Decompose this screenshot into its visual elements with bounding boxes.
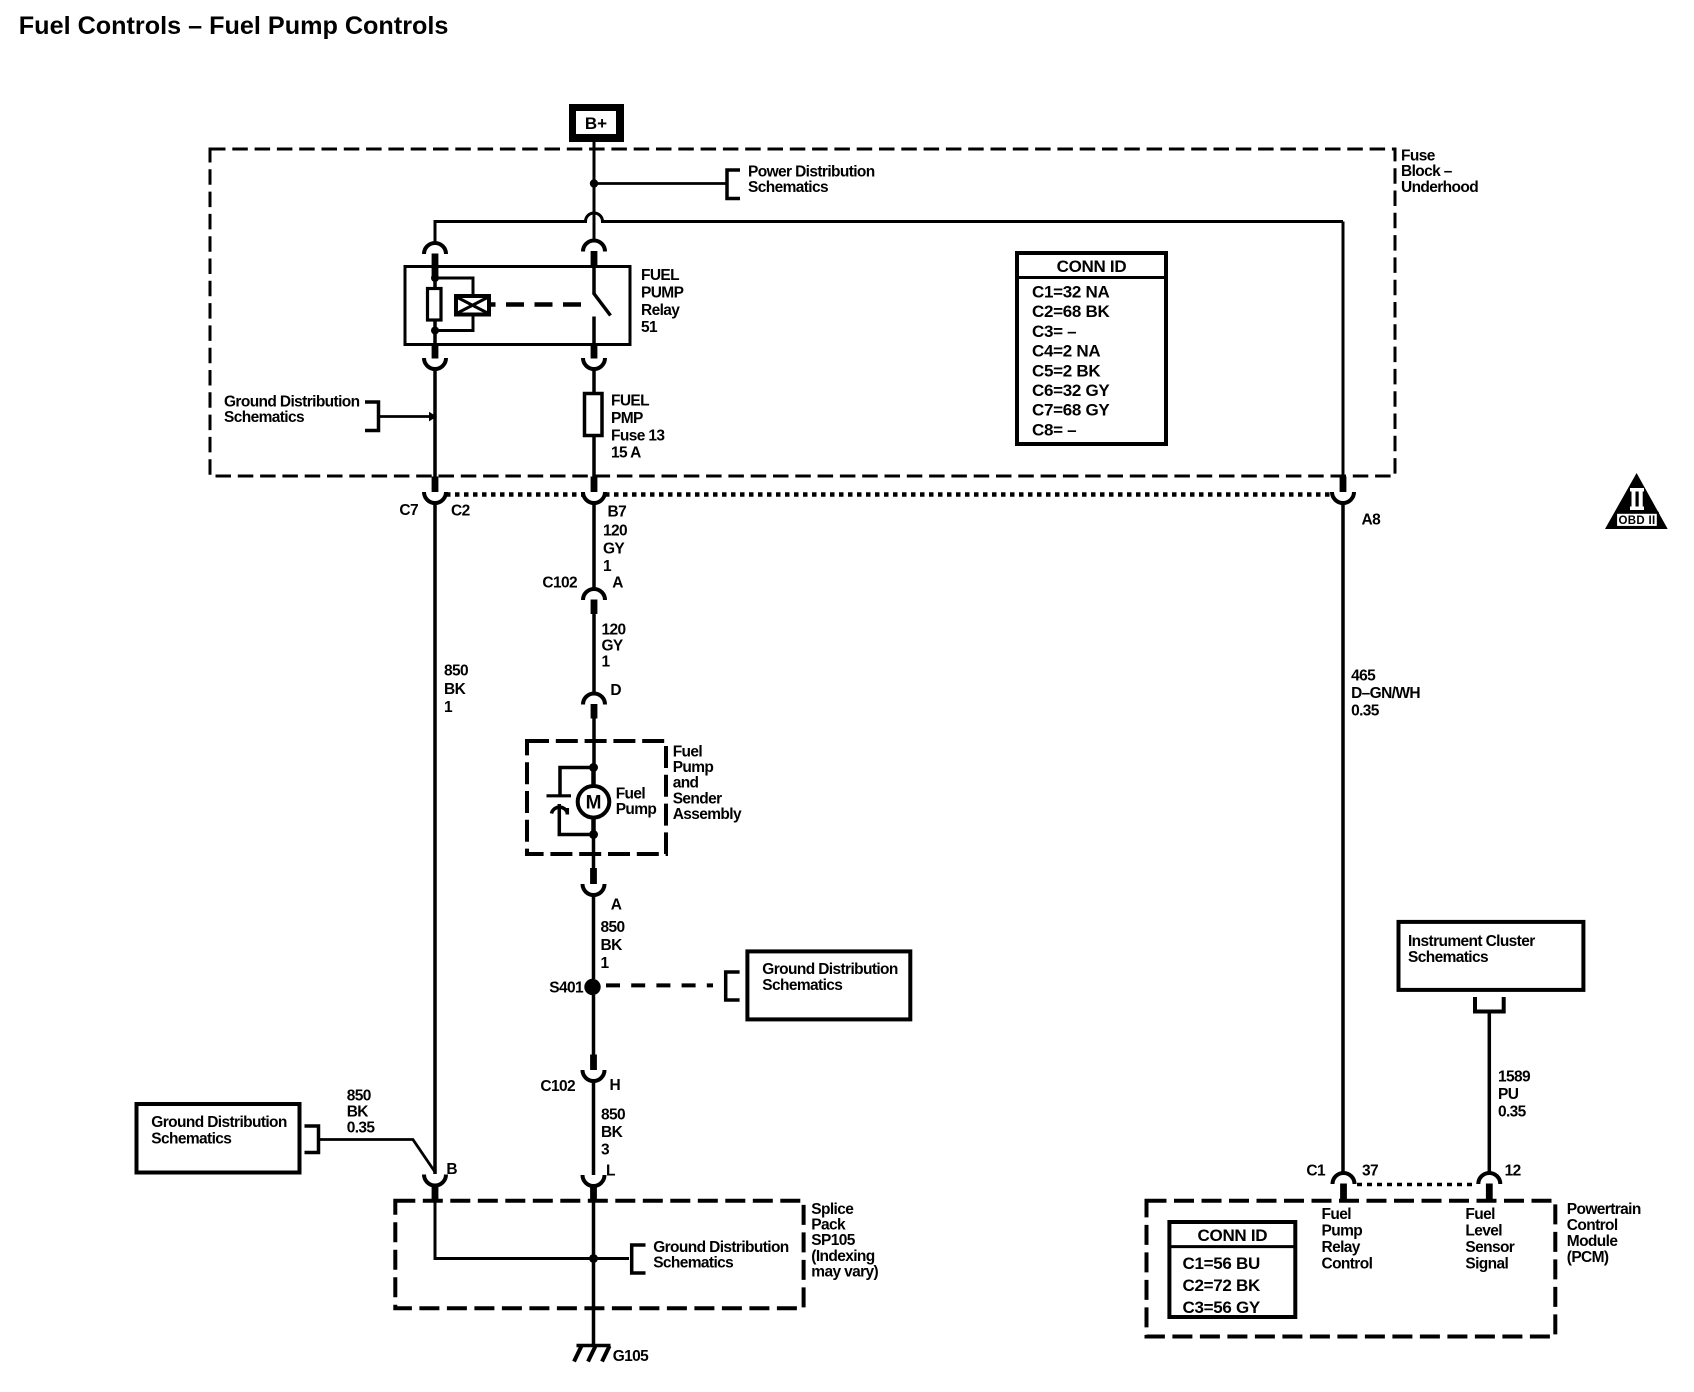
motor M fuel pump [578,786,610,818]
label Fuel Pump and Sender Assembly [673,743,742,823]
bracket under instrument cluster box [1473,997,1506,1012]
wire to power distribution bracket [594,182,727,185]
svg-text:A8: A8 [1362,512,1382,529]
title Fuel Controls - Fuel Pump Controls [19,12,449,40]
label Fuel Level Sensor Signal [1465,1206,1514,1273]
label box Ground Distribution Schematics lower left [137,1104,300,1173]
label Power Distribution Schematics [748,164,875,197]
node splice pack junction [589,1254,598,1263]
pin label B [446,1161,457,1178]
wire leader to connector B [319,1140,436,1173]
wire dashed S401 to ground distribution [606,983,713,987]
wire S401 to C102 H [592,995,596,1055]
wire relay coil to ground branch [433,370,437,478]
wire 120 GY 1 from B7 down [592,504,596,590]
node fuel pump bottom junction [589,830,598,839]
wire 850 BK 1 from C2 down [433,504,437,1175]
svg-text:C2: C2 [451,503,470,520]
pin label C7 [399,502,418,519]
powertrain control module dashed box [1147,1201,1556,1337]
svg-text:B: B [446,1161,457,1178]
pin label D [610,682,621,699]
pump element T bar [547,794,572,797]
node coil top [431,274,439,282]
connector L into splice pack [583,1175,605,1201]
pump element curved arrow [552,807,568,814]
label 1589 PU 0.35 [1498,1068,1531,1120]
label 120 GY 1 lower [602,622,626,671]
svg-text:Fuel Controls – Fuel Pump Cont: Fuel Controls – Fuel Pump Controls [19,12,449,40]
label box Instrument Cluster Schematics [1399,922,1584,990]
node junction at power distribution tap [590,179,598,187]
wire B+ to relay switch [593,142,596,240]
wire 1589 PU to PCM 12 [1488,1013,1492,1173]
label Powertrain Control Module PCM [1567,1201,1641,1266]
pin label B7 [608,504,627,521]
label 120 GY 1 upper [603,523,627,576]
bracket lower left ground distribution [305,1126,319,1153]
svg-text:C102: C102 [540,1078,575,1095]
svg-text:S401: S401 [549,979,584,996]
wire to relay winding [435,278,473,296]
wire junction to bracket [594,1257,630,1260]
connector B7 pin and arc [583,477,605,504]
pin label 37 [1362,1163,1378,1180]
wire D to fuel pump [592,719,596,769]
bracket splice pack ground distribution [632,1245,646,1273]
wire winding bottom to coil bottom [437,315,473,331]
OBD II marker triangle [1605,473,1668,529]
battery feed B+ [569,104,624,142]
label 850 BK 1 [444,663,468,717]
wire dotted PCM connector row [1357,1183,1476,1187]
wire dotted connector row [446,492,1332,497]
svg-text:B7: B7 [608,504,627,521]
svg-text:C7: C7 [399,502,418,519]
pin label H [610,1077,621,1094]
connector C102 cavity A [583,589,605,614]
wire right branch down to A8 [1342,222,1345,478]
wire 850 BK 1 to S401 [592,896,596,980]
CONN ID table fuse block [1017,253,1166,444]
wire horizontal bus with hop over B+ wire [435,213,1343,221]
svg-text:CONN ID: CONN ID [1057,257,1127,276]
wire pump to connector A [592,835,596,869]
svg-text:A: A [611,897,622,914]
connector C102 cavity H [583,1055,605,1082]
svg-text:B+: B+ [585,114,607,133]
label G105 [613,1348,649,1365]
bracket S401 ground distribution [726,972,740,1000]
connector cavity 12 of PCM [1478,1173,1500,1201]
pin label A8 [1362,512,1382,529]
svg-text:A: A [612,575,623,592]
fuse FUEL PMP Fuse 13 [585,394,603,436]
connector C1 cavity 37 of PCM [1333,1173,1355,1201]
label Fuse Block - Underhood [1401,148,1478,196]
connector pin out of relay coil [424,345,446,370]
svg-text:C1: C1 [1306,1163,1326,1180]
bracket power distribution [727,170,740,199]
wire relay switch to fuse [592,370,596,394]
pin label A of C102 [612,575,623,592]
CONN ID table PCM [1169,1222,1295,1317]
connector D of fuel pump assembly [583,694,605,719]
label FUEL PUMP Relay 51 [641,267,684,336]
wire dashed relay actuation line [489,302,582,307]
wire left branch down to relay coil connector [434,220,437,244]
connector B into splice pack [424,1175,446,1202]
wire 465 D-GN/WH to PCM C1 [1341,504,1345,1174]
node coil bottom [431,327,439,335]
wire pump bypass lower [559,804,593,835]
fuse block underhood dashed box [210,149,1395,476]
label C102 at H [540,1078,575,1095]
relay switch contact [594,267,611,345]
fuel pump and sender assembly dashed box [527,741,666,854]
wire pump bypass upper [560,768,594,796]
wire motor vertical through [591,768,596,835]
label 850 BK 1 at S401 [601,919,625,972]
connector pin into relay coil (arc) [424,243,446,279]
svg-text:12: 12 [1505,1163,1521,1180]
svg-text:C102: C102 [542,575,577,592]
pin label 12 [1505,1163,1521,1180]
label FUEL PMP Fuse 13 15 A [611,393,665,462]
label Ground Distribution Schematics upper left [224,394,360,427]
wire leader with arrow to coil ground wire [379,412,437,422]
connector A8 pin and arc [1332,477,1354,504]
label Splice Pack SP105 [811,1201,878,1281]
wire splice pack B branch [435,1200,594,1259]
relay K Fuel Pump Relay 51 box [405,267,630,345]
wire 120 GY 1 to D [592,614,596,694]
label box Ground Distribution Schematics at S401 [747,951,910,1019]
resistor relay coil resistance [428,289,442,321]
label Ground Distribution Schematics at splice pack [653,1239,789,1272]
connector pin into relay switch (arc) [583,241,605,267]
bracket ground distribution upper [365,402,379,431]
label 850 BK 0.35 [347,1087,376,1136]
wire 850 BK 3 [592,1081,596,1175]
wire splice pack main vertical [592,1200,596,1346]
svg-text:G105: G105 [613,1348,649,1365]
svg-text:C1=32 NAC2=68 BKC3= –C4=2 NAC5: C1=32 NAC2=68 BKC3= –C4=2 NAC5=2 BKC6=32… [1032,283,1110,440]
connector A of fuel pump assembly [583,868,605,895]
node fuel pump top junction [589,763,598,772]
label C102 at A [542,575,577,592]
wire fuse to connector B7 [592,436,596,478]
wire relay coil top stub [433,267,437,279]
wire coil bottom to relay box bottom [433,331,437,345]
ground G105 [574,1346,611,1362]
svg-text:M: M [586,793,602,814]
label S401 [549,979,584,996]
svg-text:L: L [606,1163,615,1180]
label 850 BK 3 [601,1107,625,1159]
svg-text:C1=56 BUC2=72 BKC3=56 GY: C1=56 BUC2=72 BKC3=56 GY [1183,1254,1261,1317]
relay winding crossed box [456,296,489,315]
pin label C1 [1306,1163,1326,1180]
svg-text:OBD II: OBD II [1619,515,1656,527]
svg-text:D: D [610,682,621,699]
svg-text:H: H [610,1077,621,1094]
svg-text:37: 37 [1362,1163,1378,1180]
pin label A lower [611,897,622,914]
connector pin out of relay switch [583,345,605,370]
pin label L [606,1163,615,1180]
splice pack SP105 dashed box [395,1201,803,1309]
connector C7 pin and arc [424,477,446,504]
svg-text:CONN ID: CONN ID [1198,1226,1268,1245]
wire resistor leads [433,278,437,331]
label 465 D-GN/WH 0.35 [1351,668,1420,720]
splice S401 [584,979,600,995]
label Fuel Pump Relay Control [1322,1206,1373,1273]
label Fuel Pump [616,786,657,819]
pin label C2 [451,503,470,520]
